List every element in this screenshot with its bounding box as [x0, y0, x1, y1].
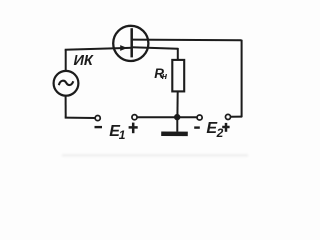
svg-text:1: 1 [119, 128, 126, 142]
svg-text:2: 2 [216, 126, 224, 140]
svg-text:н: н [162, 71, 168, 81]
svg-text:ИК: ИК [74, 53, 94, 69]
